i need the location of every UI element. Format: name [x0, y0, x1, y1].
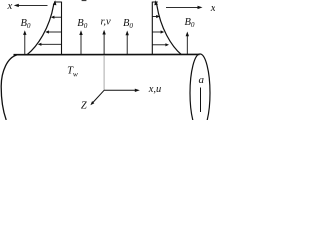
r,v axis arrow (above surface) — [103, 34, 105, 55]
left profile top tick — [54, 1, 62, 3]
svg-text:x,u: x,u — [148, 84, 162, 95]
radius line a — [200, 88, 202, 113]
svg-text:x: x — [7, 0, 13, 12]
svg-text:x: x — [210, 2, 215, 14]
B0 arrow outer-left — [24, 34, 26, 55]
B0 arrow inner-left — [80, 34, 82, 54]
right x axis arrow — [166, 6, 198, 8]
right boundary layer curve — [157, 4, 182, 55]
right curve top arrowhead — [154, 0, 158, 5]
r axis below surface (gray) — [103, 56, 105, 91]
cylinder left end arc — [1, 55, 17, 120]
B0 arrow outer-right — [186, 35, 188, 54]
svg-text:Z: Z — [81, 101, 87, 112]
left profile velocity arrow 1 — [54, 16, 62, 18]
left profile velocity arrow 3 — [41, 43, 62, 45]
left boundary layer curve — [27, 4, 54, 55]
x,u axis arrow — [104, 89, 136, 91]
cropped mark at top edge — [82, 0, 87, 1]
left curve top arrowhead — [53, 0, 57, 5]
svg-text:r,v: r,v — [100, 17, 111, 28]
left profile vertical line — [61, 2, 63, 55]
right profile vertical line — [151, 2, 153, 55]
svg-text:a: a — [199, 74, 205, 86]
cylinder top surface — [14, 53, 200, 55]
right profile top tick — [152, 1, 158, 3]
right profile velocity arrow 2 — [152, 31, 161, 33]
cylinder right end cap ellipse — [190, 54, 210, 132]
right profile velocity arrow 1 — [152, 16, 157, 18]
B0 arrow inner-right — [126, 34, 128, 54]
z axis arrow — [93, 90, 104, 102]
left x axis arrow — [19, 4, 48, 6]
right profile velocity arrow 3 — [152, 44, 166, 46]
left profile velocity arrow 2 — [48, 31, 61, 33]
